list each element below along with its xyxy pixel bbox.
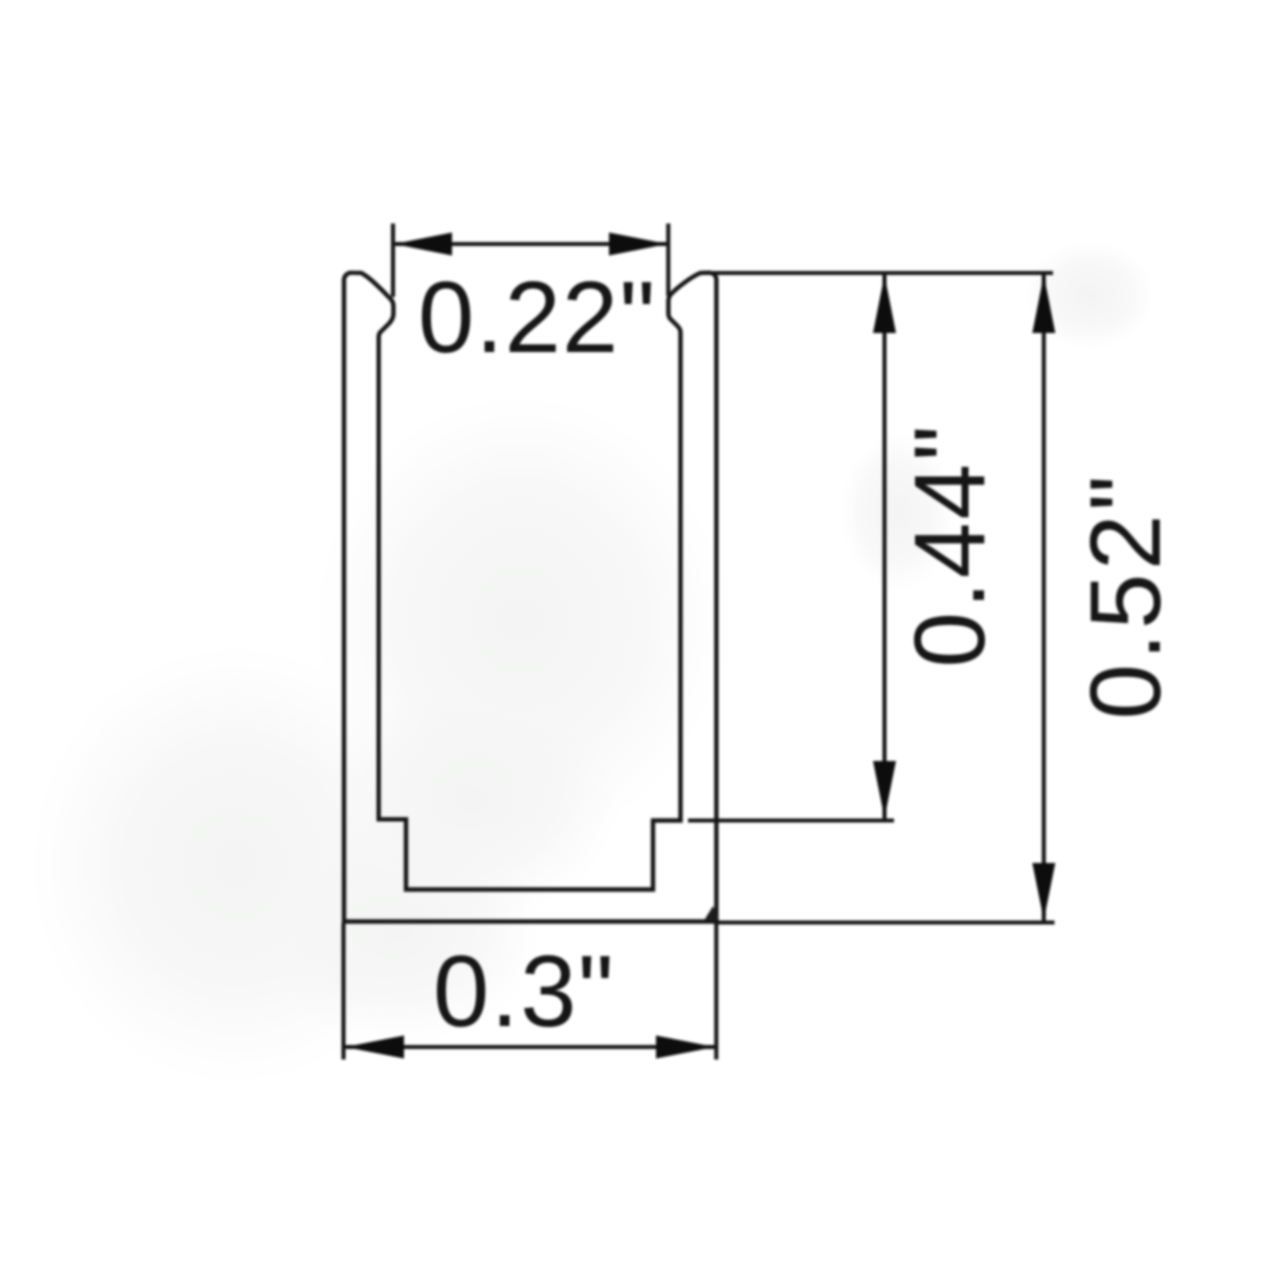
dim 0.52 arrow bottom xyxy=(1032,863,1055,920)
junction artifact triangle xyxy=(704,906,719,921)
dim 0.22 extension line left xyxy=(391,224,395,298)
dim 0.44 arrow bottom xyxy=(873,761,896,818)
svg-text:0.3": 0.3" xyxy=(433,936,615,1048)
dim 0.52 arrow top xyxy=(1032,275,1055,333)
dim 0.22 extension line right xyxy=(666,224,670,297)
dim 0.22 arrow left xyxy=(394,233,452,256)
dim 0.44 arrow top xyxy=(873,275,896,333)
dim 0.52 line xyxy=(1042,274,1046,921)
dim 0.44 line xyxy=(882,274,886,819)
dim 0.3 extension line right xyxy=(714,923,718,1060)
dim 0.22 line xyxy=(393,242,668,246)
bottom extension line (0.52 bottom) xyxy=(717,920,1055,924)
background shadow blobs xyxy=(30,645,440,1085)
dim 0.3 arrow left xyxy=(345,1036,404,1059)
svg-text:0.22": 0.22" xyxy=(418,262,656,374)
dim 0.3 arrow right xyxy=(656,1036,715,1059)
ledge extension line (0.44 bottom) xyxy=(688,818,894,822)
dim 0.22 arrow right xyxy=(609,233,668,256)
svg-text:0.52": 0.52" xyxy=(1070,472,1182,720)
top extension line (to 0.44 and 0.52 dims) xyxy=(705,271,1053,275)
dim 0.3 extension line left xyxy=(341,923,345,1060)
channel profile cross-section outline xyxy=(344,273,716,922)
dim 0.3 line xyxy=(344,1045,717,1049)
svg-text:0.44": 0.44" xyxy=(894,422,1006,667)
